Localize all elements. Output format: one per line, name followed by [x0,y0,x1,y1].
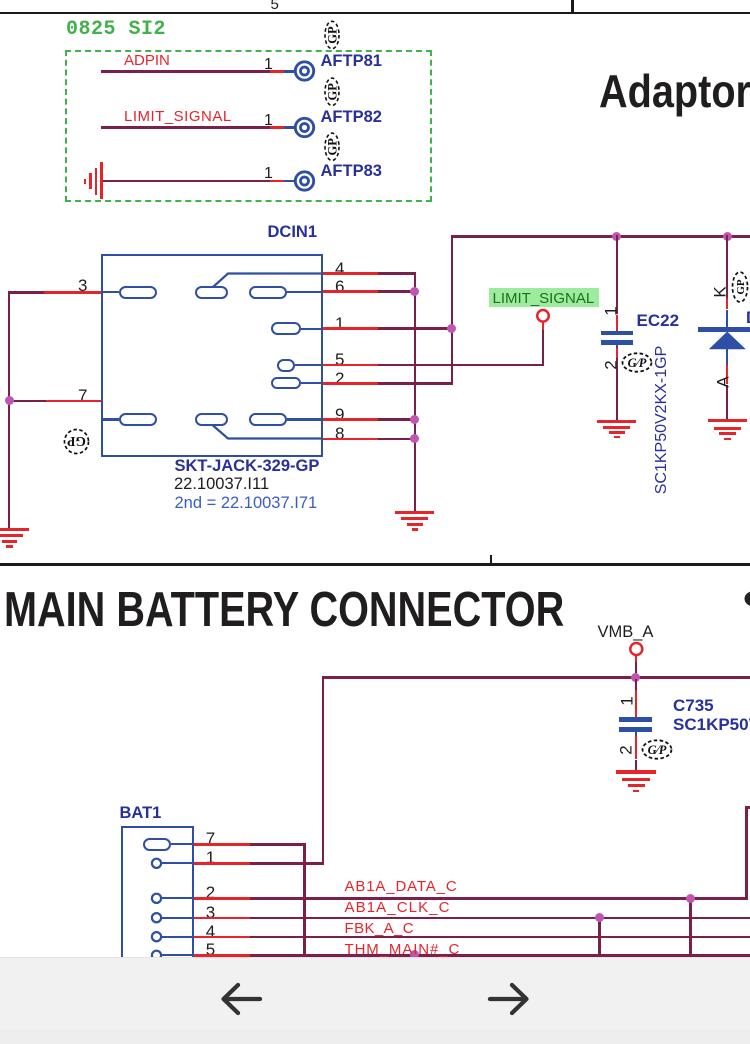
svg-text:GP: GP [735,279,747,295]
svg-text:GP: GP [326,83,340,101]
svg-text:GP: GP [326,138,340,156]
svg-text:GP: GP [67,434,86,449]
svg-text:G⁄P: G⁄P [648,743,667,757]
svg-text:GP: GP [326,26,340,44]
svg-text:G⁄P: G⁄P [628,356,647,370]
